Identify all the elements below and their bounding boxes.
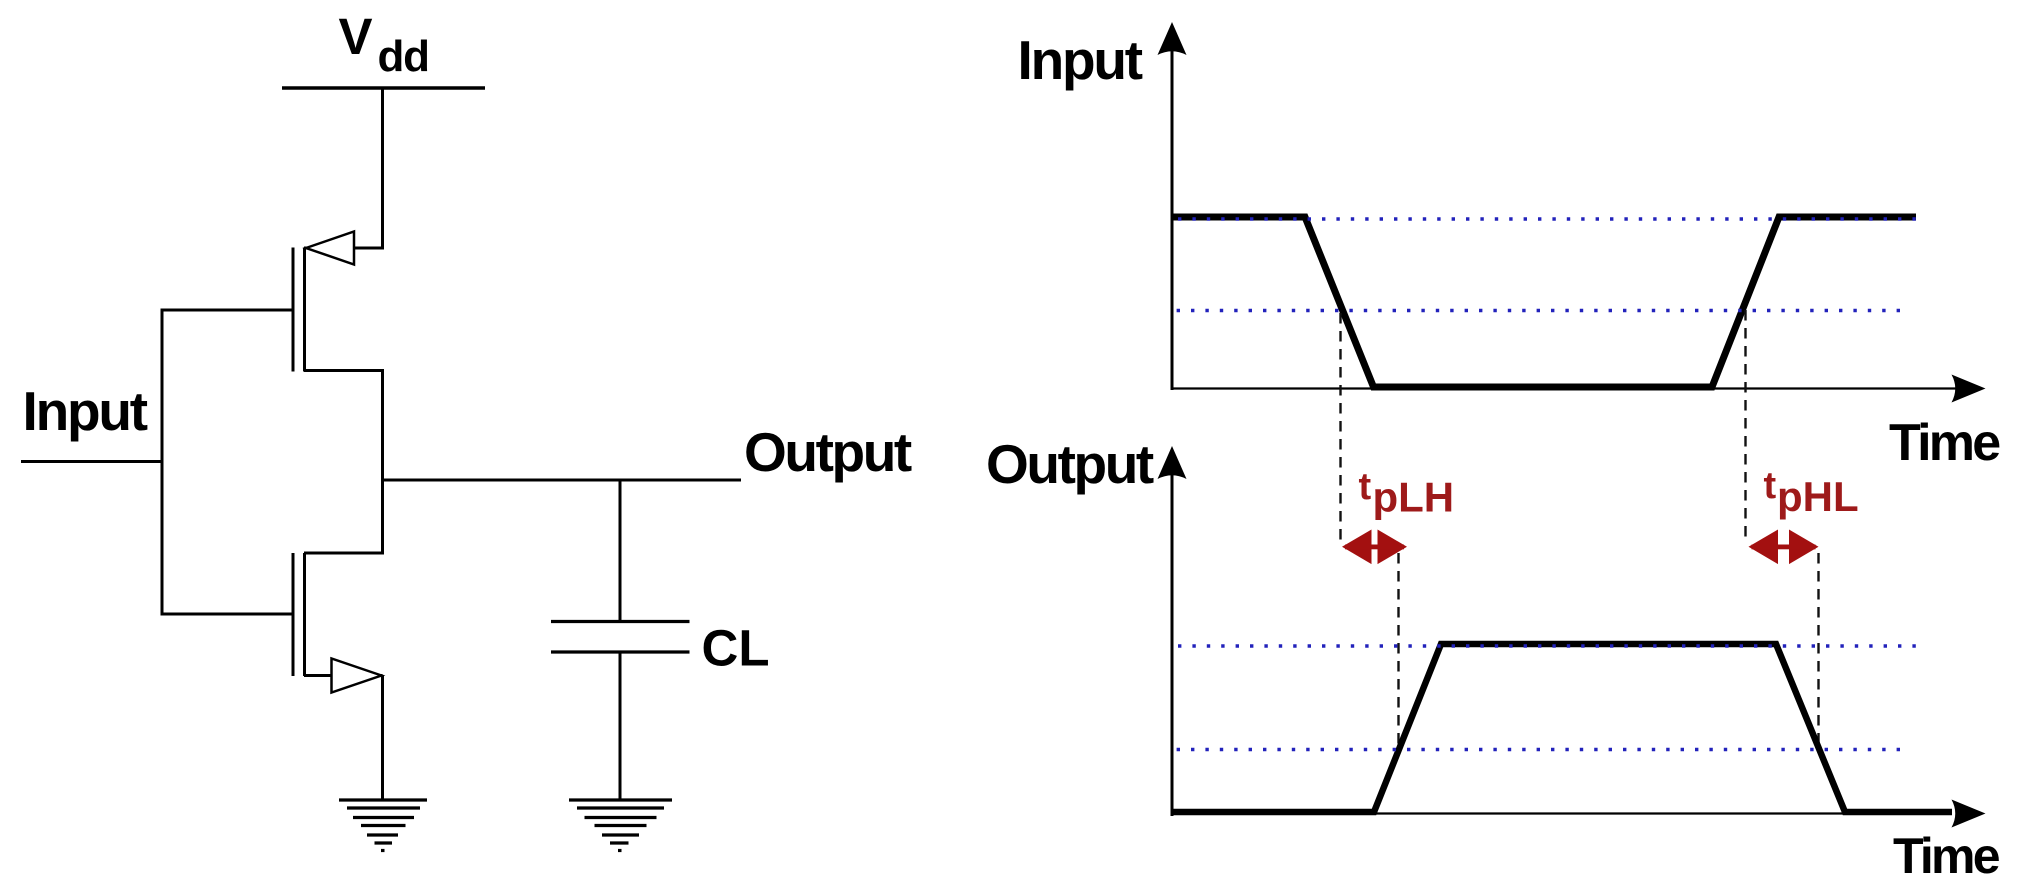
- svg-text:t: t: [1359, 466, 1372, 508]
- wire output: [383, 479, 742, 482]
- label Vdd: [339, 8, 429, 81]
- dotted level 50% (top plot): [1177, 309, 1908, 312]
- label tpLH: [1359, 466, 1455, 521]
- wire capacitor to ground: [619, 652, 622, 800]
- dashed marker output falling 50%: [1817, 553, 1819, 746]
- svg-text:Time: Time: [1893, 828, 2000, 884]
- wire PMOS gate: [162, 309, 293, 312]
- svg-text:V: V: [339, 8, 373, 65]
- wire input: [21, 460, 164, 463]
- waveform output: [1172, 644, 1952, 812]
- svg-text:CL: CL: [702, 620, 770, 677]
- svg-text:Output: Output: [744, 421, 912, 483]
- svg-text:Output: Output: [986, 433, 1154, 495]
- dotted level VOH (top plot): [1178, 217, 1918, 220]
- svg-text:t: t: [1764, 465, 1777, 507]
- wire NMOS gate: [162, 613, 293, 616]
- transistor PMOS: [293, 232, 383, 372]
- wire input vertical: [161, 309, 164, 616]
- wire output to capacitor: [619, 480, 622, 622]
- wire PMOS drain to NMOS drain (output node): [381, 369, 384, 555]
- waveform input: [1172, 217, 1916, 387]
- ground (capacitor): [569, 800, 672, 851]
- axis Y (top plot): [1158, 22, 1187, 390]
- svg-text:dd: dd: [378, 32, 429, 81]
- svg-text:Time: Time: [1889, 414, 2000, 472]
- capacitor CL: [551, 622, 690, 653]
- svg-text:Input: Input: [1018, 29, 1143, 91]
- ground (NMOS source): [339, 800, 427, 851]
- axis Y (bottom plot): [1158, 446, 1187, 816]
- wire Vdd to PMOS source: [381, 88, 384, 250]
- svg-text:pHL: pHL: [1777, 473, 1859, 520]
- svg-text:pLH: pLH: [1373, 474, 1455, 521]
- dashed marker input rising 50%: [1744, 310, 1746, 540]
- wire NMOS source to ground: [381, 676, 384, 801]
- arrow tpHL: [1749, 530, 1819, 565]
- svg-text:Input: Input: [23, 380, 148, 442]
- dashed marker output rising 50%: [1397, 553, 1399, 750]
- arrow tpLH: [1342, 530, 1407, 565]
- power rail Vdd: [282, 86, 485, 89]
- axis X (bottom plot): [1171, 800, 1986, 828]
- dotted level 50% (bottom plot): [1177, 748, 1910, 751]
- dashed marker input falling 50%: [1339, 313, 1341, 540]
- axis X (top plot): [1171, 375, 1986, 403]
- transistor NMOS: [293, 553, 383, 693]
- dotted level VOH (bottom plot): [1178, 644, 1916, 647]
- label tpHL: [1764, 465, 1859, 520]
